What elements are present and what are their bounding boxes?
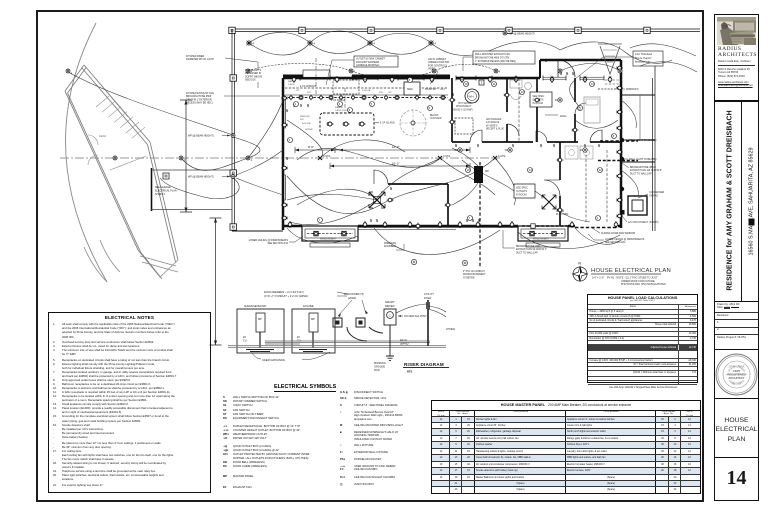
svg-text:1" EXTERIOR RECESS (MAY BE REQ: 1" EXTERIOR RECESS (MAY BE REQ) bbox=[475, 60, 516, 63]
svg-text:ON PAD: ON PAD bbox=[649, 194, 658, 197]
porch ceiling lights row bbox=[246, 40, 254, 46]
porch light wiring bbox=[249, 32, 560, 55]
garage wall SE bbox=[148, 142, 179, 262]
svg-text:4: 4 bbox=[499, 69, 501, 73]
refrigerator bbox=[404, 82, 420, 95]
porch wires top-right bbox=[560, 42, 672, 71]
svg-text:AIR HANDLER: AIR HANDLER bbox=[486, 118, 502, 121]
svg-text:$: $ bbox=[572, 71, 574, 76]
great room long wire bbox=[287, 158, 495, 214]
garage lamp top bbox=[66, 69, 73, 75]
svg-text:4-STE: 4-STE bbox=[443, 154, 451, 158]
svg-text:2-DOCA: 2-DOCA bbox=[362, 89, 371, 92]
svg-text:$: $ bbox=[584, 143, 586, 148]
ac disconnect bbox=[620, 210, 625, 215]
svg-text:£ OF WINDOW: £ OF WINDOW bbox=[300, 85, 317, 88]
title block: drawn-by / revisions bbox=[714, 301, 759, 351]
entry door arc bbox=[558, 60, 575, 77]
note wp beam height top bbox=[503, 31, 507, 35]
svg-text:11: 11 bbox=[493, 82, 496, 86]
svg-text:4: 4 bbox=[434, 42, 436, 46]
breezeway wire sweep 3 bbox=[248, 95, 285, 158]
pvc conduit dashed line bbox=[479, 162, 481, 268]
interior wall MBR/laundry bbox=[559, 142, 561, 226]
entry vestibule wall bbox=[539, 60, 541, 78]
wall light fixture 3 bbox=[622, 187, 624, 191]
beam centerline bbox=[60, 157, 500, 159]
svg-text:19: 19 bbox=[467, 168, 471, 172]
windowseat 2 outlets bbox=[528, 231, 535, 235]
svg-text:UTILITY: UTILITY bbox=[424, 292, 434, 296]
great room wiring arcs bbox=[297, 140, 440, 205]
panel feed wires bbox=[452, 148, 478, 205]
receptacles south wall bbox=[288, 221, 292, 228]
svg-text:DOORBELL: DOORBELL bbox=[384, 246, 397, 248]
svg-text:SD: SD bbox=[505, 149, 509, 152]
windowseat 1 bbox=[302, 226, 358, 241]
hall closet dashes bbox=[518, 78, 520, 142]
svg-text:HOUSE ELECTRICAL PLAN: HOUSE ELECTRICAL PLAN bbox=[591, 268, 671, 274]
svg-text:$: $ bbox=[370, 218, 372, 223]
bed3 wiring bbox=[570, 80, 618, 128]
svg-text:HEAD: HEAD bbox=[99, 134, 106, 138]
svg-text:WALL LIGHT TO BE BBQ: WALL LIGHT TO BE BBQ bbox=[629, 139, 657, 142]
note outlet sink cabinet bbox=[354, 56, 398, 67]
porch lamp wiring bbox=[248, 63, 496, 77]
svg-text:POLE: POLE bbox=[424, 296, 431, 300]
svg-text:REF.: REF. bbox=[407, 87, 414, 91]
svg-text:8'-0": 8'-0" bbox=[308, 145, 314, 149]
electrical symbols legend bbox=[222, 385, 440, 492]
svg-text:IN ROOM: IN ROOM bbox=[516, 193, 527, 196]
washer dryer bbox=[565, 146, 578, 159]
condenser on pad bbox=[628, 196, 647, 215]
svg-text:$: $ bbox=[598, 143, 600, 148]
kitchen soffit dashed bbox=[285, 87, 448, 89]
entry hall doorbell symbols bbox=[522, 225, 568, 227]
door arc bed3 bbox=[590, 130, 602, 142]
title block: sheet title bbox=[714, 398, 759, 459]
ceiling fan MBR bbox=[542, 195, 557, 210]
svg-text:(BARE): (BARE) bbox=[400, 343, 409, 346]
east rooms wires bbox=[621, 100, 638, 196]
door arc hall-bath bbox=[536, 131, 547, 142]
kitchen counter edge bbox=[285, 94, 448, 96]
svg-text:GARAGE/SHOP: GARAGE/SHOP bbox=[244, 304, 266, 308]
svg-text:B-DOCA: B-DOCA bbox=[302, 122, 311, 125]
svg-text:DW: DW bbox=[379, 92, 384, 94]
door arc bed3 window bbox=[575, 103, 586, 114]
svg-text:13: 13 bbox=[521, 90, 525, 94]
svg-text:(X W. 2" CONDUIT + # 2 CU GRND: (X W. 2" CONDUIT + # 2 CU GRND) bbox=[264, 294, 308, 298]
beam node A bbox=[318, 154, 331, 160]
svg-text:4: 4 bbox=[313, 42, 315, 46]
svg-text:WIRELESS: WIRELESS bbox=[384, 243, 396, 245]
svg-text:NTS: NTS bbox=[407, 369, 412, 373]
svg-text:12: 12 bbox=[599, 168, 603, 172]
svg-text:$: $ bbox=[390, 186, 392, 191]
porch lamp extra 2 bbox=[618, 69, 622, 73]
svg-text:#4 CU: #4 CU bbox=[400, 339, 407, 342]
garage east edge wall bbox=[151, 168, 153, 211]
receptacles west wall bbox=[281, 96, 288, 100]
svg-text:MW: MW bbox=[424, 98, 429, 100]
beam lamp 0 bbox=[113, 156, 117, 160]
east yard wall returns bbox=[621, 95, 655, 162]
kitchen island dashed bbox=[320, 113, 374, 135]
porch roof edge (east) bbox=[653, 60, 655, 231]
svg-text:OTHER: OTHER bbox=[446, 328, 455, 331]
title block: sheet number 14 bbox=[714, 457, 759, 501]
svg-text:RECEPT & PLUG: RECEPT & PLUG bbox=[486, 129, 505, 131]
bath fixtures bbox=[510, 80, 522, 88]
furnace dashed box bbox=[455, 118, 473, 134]
driveway arc inner segment bbox=[84, 240, 120, 282]
svg-text:4: 4 bbox=[354, 69, 356, 73]
covered walk roof lines bbox=[152, 170, 233, 210]
svg-text:CU: CU bbox=[243, 338, 247, 342]
svg-text:#2: #2 bbox=[297, 335, 300, 339]
svg-text:HOUSE: HOUSE bbox=[303, 304, 315, 308]
entry walk hatch bbox=[598, 44, 622, 74]
svg-text:BROAN/NUTONE X990: BROAN/NUTONE X990 bbox=[516, 245, 541, 248]
svg-text:S/D: S/D bbox=[300, 119, 304, 121]
beam lamp 2 bbox=[246, 156, 253, 162]
svg-text:GARBAGE DISPOSAL: GARBAGE DISPOSAL bbox=[356, 64, 380, 67]
svg-text:14: 14 bbox=[591, 82, 595, 86]
beam lamp 1 bbox=[179, 156, 186, 162]
svg-text:PANTRY: PANTRY bbox=[425, 87, 437, 91]
riser garage meter bbox=[256, 313, 265, 332]
svg-text:£ OF ISLAND: £ OF ISLAND bbox=[380, 122, 395, 125]
svg-text:$: $ bbox=[553, 143, 555, 148]
house wall (east) bbox=[620, 60, 623, 228]
island outlets bbox=[327, 122, 334, 126]
svg-text:WALL: WALL bbox=[560, 114, 568, 118]
porch light wiring petals bbox=[249, 31, 431, 55]
riser grade line bbox=[228, 346, 446, 348]
great room wing wall bbox=[388, 184, 448, 226]
circuit tags bbox=[294, 102, 299, 107]
windowseat 2 bbox=[518, 226, 568, 241]
receptacles north wall bbox=[292, 76, 296, 83]
riser feeder line bbox=[265, 341, 430, 344]
svg-text:MP: MP bbox=[311, 317, 315, 321]
svg-text:UPPER: UPPER bbox=[305, 129, 313, 131]
svg-text:14: 14 bbox=[529, 168, 533, 172]
svg-text:DUCT TO WALLCAP: DUCT TO WALLCAP bbox=[630, 172, 652, 175]
svg-text:SLIDING DOOR AND WINDOW: SLIDING DOOR AND WINDOW bbox=[601, 232, 636, 235]
door arc bath inner bbox=[507, 124, 519, 136]
svg-text:4: 4 bbox=[251, 159, 253, 162]
garage door front bbox=[140, 256, 178, 277]
svg-text:PLATFORM: PLATFORM bbox=[556, 213, 568, 216]
svg-text:4: 4 bbox=[252, 42, 254, 46]
svg-text:2" PVC 40 CONDUIT: 2" PVC 40 CONDUIT bbox=[463, 271, 485, 273]
svg-text:208/230 V (20 AMP): 208/230 V (20 AMP) bbox=[452, 108, 473, 111]
dimension line 2 bbox=[330, 163, 470, 169]
patio southwest wires bbox=[287, 228, 358, 243]
door arc MBR bbox=[544, 180, 560, 196]
svg-text:C: C bbox=[389, 314, 392, 318]
svg-text:WINDOWSEAT: WINDOWSEAT bbox=[320, 238, 337, 241]
svg-text:AT METER: AT METER bbox=[463, 276, 475, 279]
svg-text:SMART: SMART bbox=[385, 300, 395, 304]
bbq counter dashes bbox=[600, 140, 638, 142]
counter receptacles kitchen bbox=[290, 95, 293, 101]
svg-text:John Timberland: John Timberland bbox=[635, 53, 653, 56]
walk column marker bbox=[163, 173, 169, 179]
kitchen window bump bbox=[303, 70, 330, 78]
svg-text:VIDEO: VIDEO bbox=[428, 68, 436, 71]
svg-text:N: N bbox=[578, 261, 581, 266]
svg-text:#2: #2 bbox=[243, 335, 246, 339]
svg-text:COUNTER: COUNTER bbox=[430, 118, 442, 120]
patio south arc wire bbox=[374, 228, 500, 255]
driveway arc outer bbox=[66, 23, 107, 282]
dimension bracket upper bbox=[185, 100, 187, 212]
house wall (north) bbox=[283, 60, 621, 78]
svg-text:VIP: VIP bbox=[296, 90, 300, 92]
svg-text:GFCI: GFCI bbox=[440, 89, 446, 91]
med spec outlets box bbox=[530, 92, 552, 107]
svg-text:SEE SECTION A/11: SEE SECTION A/11 bbox=[267, 242, 288, 245]
bed3 bed bbox=[584, 97, 600, 123]
interior wall bath/bed3 bbox=[574, 78, 576, 142]
svg-text:C3: C3 bbox=[578, 106, 582, 110]
svg-text:RECESS (MAY BE NEC.): RECESS (MAY BE NEC.) bbox=[186, 102, 213, 105]
wall light fixture 2 bbox=[622, 157, 624, 161]
west porch wire bbox=[236, 150, 283, 195]
svg-text:$: $ bbox=[566, 71, 568, 76]
svg-text:$: $ bbox=[300, 103, 302, 108]
svg-text:$: $ bbox=[512, 143, 514, 148]
receptacles east wall bbox=[616, 66, 623, 70]
windowseat 1 outlets bbox=[312, 231, 319, 235]
svg-text:BONDING: BONDING bbox=[374, 362, 386, 365]
porch roof edge (west) bbox=[232, 29, 235, 231]
svg-text:SD: SD bbox=[555, 99, 559, 102]
window jogs on west wall bbox=[283, 100, 286, 200]
porch roof edge (north) bbox=[232, 29, 700, 32]
ceiling fan great room bbox=[369, 192, 385, 208]
svg-text:METER: METER bbox=[385, 304, 394, 308]
north arrow bbox=[573, 261, 588, 282]
svg-text:W/ WIRE'S: W/ WIRE'S bbox=[486, 125, 498, 127]
dimension line great room bbox=[295, 147, 470, 153]
svg-text:MP: MP bbox=[258, 317, 262, 321]
svg-text:GD: GD bbox=[388, 92, 392, 94]
svg-text:FOR DISH WASHERS: FOR DISH WASHERS bbox=[356, 61, 380, 64]
riser ufer bars bbox=[246, 350, 327, 352]
east closet line bbox=[639, 95, 641, 140]
far right porch wires bbox=[630, 44, 697, 72]
dining table circle bbox=[400, 110, 426, 136]
house wall (south) bbox=[283, 225, 621, 228]
svg-text:T: T bbox=[480, 81, 482, 85]
svg-text:CU: CU bbox=[297, 338, 301, 342]
svg-text:$: $ bbox=[452, 92, 454, 97]
svg-text:ON NEW 6x6 POST: ON NEW 6x6 POST bbox=[404, 315, 427, 318]
svg-text:RISER DIAGRAM: RISER DIAGRAM bbox=[404, 362, 444, 367]
water heater bbox=[465, 89, 479, 103]
interior hall wall bbox=[452, 141, 621, 143]
svg-text:16: 16 bbox=[465, 82, 469, 86]
breezeway wire sweep 1 bbox=[181, 137, 260, 170]
svg-text:FROM DISCONNECT: FROM DISCONNECT bbox=[463, 274, 486, 276]
svg-text:GROUND: GROUND bbox=[374, 366, 385, 369]
svg-text:WP (@ BEAM HEIGHT): WP (@ BEAM HEIGHT) bbox=[188, 175, 214, 178]
interior wall mech/bath bbox=[506, 78, 508, 142]
bed3 circuit tag bbox=[577, 105, 582, 110]
svg-text:4: 4 bbox=[373, 42, 375, 46]
load calc table bbox=[587, 294, 698, 383]
bed3 closet shelf bbox=[605, 80, 619, 84]
garage wire long bbox=[68, 72, 233, 135]
master panel table bbox=[431, 400, 701, 494]
svg-text:SHEET 6: SHEET 6 bbox=[155, 193, 166, 196]
svg-text:DISCONNECTS: DISCONNECTS bbox=[344, 292, 364, 296]
engraving logo bbox=[717, 17, 756, 45]
mbr wiring bbox=[462, 160, 590, 222]
svg-text:$: $ bbox=[545, 58, 547, 63]
range dashed box bbox=[333, 80, 359, 94]
svg-text:J-BOX: J-BOX bbox=[288, 84, 295, 86]
svg-text:SEE D/16: SEE D/16 bbox=[245, 79, 256, 82]
garage interior line bbox=[95, 78, 146, 170]
thermostat T bbox=[479, 80, 484, 85]
great room extra wires bbox=[287, 120, 516, 225]
dimension bracket lower bbox=[215, 218, 217, 345]
svg-text:ARCHITECT: ARCHITECT bbox=[728, 376, 744, 380]
svg-text:BELOW: BELOW bbox=[430, 115, 439, 117]
svg-text:$: $ bbox=[376, 218, 378, 223]
svg-text:BROAN/NUTONE XB110: BROAN/NUTONE XB110 bbox=[630, 166, 657, 169]
porch columns (west row) bbox=[230, 75, 236, 81]
svg-text:WINDOW: WINDOW bbox=[300, 116, 311, 118]
porch lamp extra 1 bbox=[558, 69, 562, 73]
svg-text:WH: WH bbox=[469, 95, 474, 99]
garage wall NW bbox=[65, 65, 87, 93]
svg-text:$: $ bbox=[540, 143, 542, 148]
door arc hall-mech bbox=[470, 130, 482, 142]
svg-text:4-STE: 4-STE bbox=[498, 154, 506, 158]
svg-text:SD: SD bbox=[580, 149, 584, 152]
mbr spec outlets box bbox=[514, 184, 535, 198]
receptacles interior walls bbox=[449, 98, 456, 102]
counter outlet dashed circuit line bbox=[288, 97, 448, 99]
porch lamp symbols bbox=[246, 69, 253, 73]
electrical notes box bbox=[48, 312, 211, 493]
door arc wing bbox=[374, 170, 388, 184]
svg-text:WP (@ BEAM HEIGHT): WP (@ BEAM HEIGHT) bbox=[188, 134, 214, 137]
patio southeast wires bbox=[518, 228, 621, 249]
title block: project name (rotated) bbox=[714, 101, 759, 303]
garage wall NE bbox=[82, 65, 151, 145]
smoke detectors bbox=[455, 148, 463, 152]
svg-text:$: $ bbox=[286, 108, 288, 113]
bbq upper dashes bbox=[598, 160, 638, 162]
breezeway wire sweep 2 bbox=[160, 178, 239, 199]
south window sill lines bbox=[358, 228, 518, 230]
svg-text:(200A): (200A) bbox=[348, 296, 356, 300]
garage door arcs bbox=[88, 135, 98, 165]
svg-text:$: $ bbox=[307, 103, 309, 108]
svg-text:SEE SECTION A/11: SEE SECTION A/11 bbox=[605, 241, 626, 244]
garage wall SW bbox=[65, 91, 162, 279]
svg-text:EXHAUST FAN 90 CFM W/ 4": EXHAUST FAN 90 CFM W/ 4" bbox=[516, 248, 547, 251]
riser house panel box bbox=[292, 309, 335, 353]
porch columns (north row) bbox=[229, 27, 235, 33]
window centerline bbox=[315, 58, 317, 98]
svg-text:J-BOX 110 V: J-BOX 110 V bbox=[335, 110, 348, 112]
svg-text:DIAMETER W/ NO LIGHT: DIAMETER W/ NO LIGHT bbox=[186, 58, 214, 61]
note john timberland bbox=[633, 51, 663, 66]
svg-text:WINDOW #: WINDOW # bbox=[626, 88, 639, 91]
master panel MP bbox=[474, 166, 483, 183]
svg-text:WP (@ BEAM HEIGHT): WP (@ BEAM HEIGHT) bbox=[509, 32, 535, 35]
svg-text:PHOTOVOLTAIC (PV) INSTALLATION: PHOTOVOLTAIC (PV) INSTALLATIONS bbox=[621, 283, 666, 286]
svg-text:LOWER CEILING @ WINDOWSEATS: LOWER CEILING @ WINDOWSEATS bbox=[249, 239, 289, 242]
svg-text:$: $ bbox=[455, 143, 457, 148]
interior wall mech room west bbox=[451, 78, 453, 142]
riser service drop wires bbox=[396, 304, 446, 317]
svg-text:UFER GROUNDS: UFER GROUNDS bbox=[262, 358, 285, 362]
svg-text:MP: MP bbox=[485, 169, 489, 173]
patio post light 1 bbox=[411, 259, 416, 264]
svg-text:IN ROOM: IN ROOM bbox=[532, 102, 543, 105]
svg-text:LOWER CEILING @ WINDOWSEATS: LOWER CEILING @ WINDOWSEATS bbox=[605, 238, 645, 241]
svg-text:A/C DISCONNECT (30AMP): A/C DISCONNECT (30AMP) bbox=[628, 221, 659, 224]
svg-text:WINDOWSEAT: WINDOWSEAT bbox=[533, 238, 550, 241]
window ticks north wall bbox=[300, 76, 330, 81]
beam node B bbox=[438, 154, 451, 160]
svg-text:OUTLET W/ SINK CABINET: OUTLET W/ SINK CABINET bbox=[356, 57, 386, 60]
svg-text:ROD: ROD bbox=[374, 369, 380, 372]
porch slab edge south-west bbox=[232, 230, 283, 232]
riser disconnect boxes bbox=[333, 318, 342, 327]
svg-text:S/D: S/D bbox=[307, 92, 311, 94]
svg-text:EXHAUST FAN 110 CFM W/ 6": EXHAUST FAN 110 CFM W/ 6" bbox=[630, 169, 662, 172]
svg-text:& FURNACE: & FURNACE bbox=[486, 121, 500, 124]
riser garage panel box bbox=[237, 309, 284, 353]
svg-text:WALL MOUNTED EXHAUST FAN: WALL MOUNTED EXHAUST FAN bbox=[475, 53, 510, 56]
svg-text:$: $ bbox=[286, 156, 288, 161]
beam node C bbox=[493, 154, 506, 160]
range centerline bbox=[344, 88, 346, 112]
riser meter drop bbox=[347, 325, 390, 345]
riser house meter bbox=[309, 313, 318, 332]
garage stair hatch bbox=[96, 96, 109, 107]
title block: architect stamp seal bbox=[714, 349, 759, 400]
wall light fixture 1 bbox=[622, 138, 624, 142]
interior wall bath/hall bbox=[536, 78, 538, 142]
svg-text:MAIN FEEDERS ~ # of 3/0 THU: MAIN FEEDERS ~ # of 3/0 THU | bbox=[264, 290, 304, 294]
patio post light 2 bbox=[462, 260, 467, 265]
svg-text:$: $ bbox=[477, 143, 479, 148]
svg-text:FAN: FAN bbox=[288, 80, 293, 83]
svg-text:DUCT TO WALLCAP: DUCT TO WALLCAP bbox=[516, 251, 538, 254]
title block: firm logo panel bbox=[714, 14, 759, 101]
svg-text:HOT WATER: HOT WATER bbox=[458, 102, 472, 105]
note wall exhaust fan bbox=[473, 51, 535, 64]
house wall (west) bbox=[282, 78, 285, 230]
svg-text:BROAN/NUTONE #509 270 CFM: BROAN/NUTONE #509 270 CFM bbox=[475, 56, 509, 59]
svg-text:DISCONNECT: DISCONNECT bbox=[456, 106, 472, 108]
riser service ground bbox=[386, 345, 394, 360]
laundry shelving dashes bbox=[586, 150, 607, 222]
svg-text:WALL LIGHT TO BE BBQ: WALL LIGHT TO BE BBQ bbox=[629, 158, 657, 161]
